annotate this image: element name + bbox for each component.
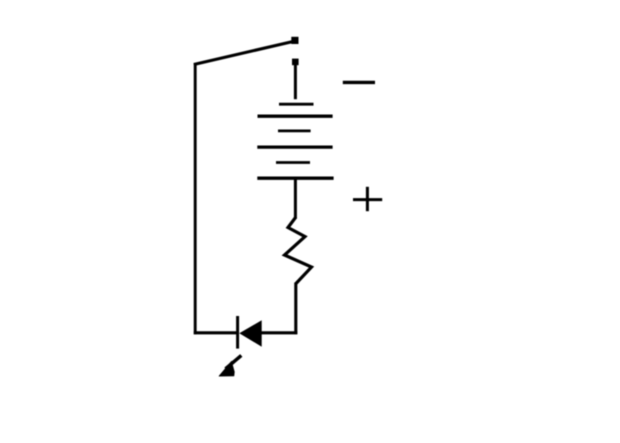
wire: switch fixed contact down to battery top xyxy=(294,65,297,99)
wire: resistor bottom to LED anode (right vertical) xyxy=(294,283,297,335)
battery B1 (3 cells) xyxy=(257,104,333,178)
wire: bottom rail right segment xyxy=(260,331,297,334)
wire: battery bottom to resistor top xyxy=(294,178,297,218)
resistor R1 (zigzag) xyxy=(285,217,312,284)
battery negative sign xyxy=(343,81,375,84)
switch S1 (blade from left corner up to open contact) xyxy=(194,37,299,65)
wire: bottom rail left segment xyxy=(194,331,237,334)
battery positive sign xyxy=(353,187,382,211)
LED D1 xyxy=(219,316,262,377)
wire: left vertical from switch corner to bottom rail xyxy=(194,64,197,335)
